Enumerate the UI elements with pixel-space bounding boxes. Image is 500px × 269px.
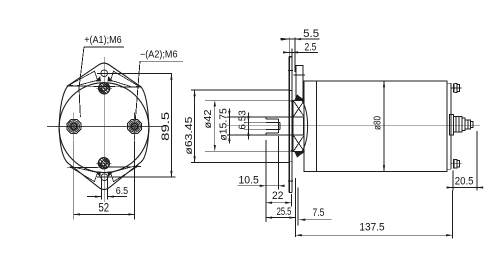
front view bottom through-bolt hatching	[99, 158, 109, 168]
dimension 137.5 right arrow	[446, 234, 452, 236]
front view bottom tab right dark gusset	[108, 172, 114, 177]
mounting flange front face	[288, 57, 290, 193]
shaft end face upper corner	[265, 117, 267, 119]
front view bottom tab slot left edge	[100, 178, 102, 200]
bearing housing outline	[297, 95, 308, 157]
rear end cap rim bottom tick	[447, 168, 451, 170]
svg-text:ø63.45: ø63.45	[184, 116, 195, 155]
leader line to stud A1	[79, 47, 84, 117]
dimension 89.5 bottom arrow	[170, 171, 172, 177]
dimension 10.5 left arrow	[260, 185, 266, 187]
front view bottom tab slot right edge	[107, 178, 109, 200]
svg-text:7.5: 7.5	[313, 207, 325, 219]
shaft tip extension line	[265, 140, 267, 222]
dimension 52 left arrow	[74, 213, 80, 215]
shaft root face	[292, 117, 294, 135]
dimension ø15.75 bottom arrow	[228, 135, 230, 141]
dimension 52 left extension line	[73, 141, 75, 220]
dimension ø42 bottom arrow	[214, 145, 216, 151]
front view top tab right dark gusset	[108, 76, 114, 81]
hub upper dark gusset	[290, 101, 293, 105]
dimension 6.5 right arrow	[108, 195, 114, 197]
front view bottom tab web line	[67, 167, 141, 168]
svg-text:10.5: 10.5	[239, 174, 259, 186]
mounting flange tab joint upper	[288, 70, 293, 72]
front view top tab left web rib	[70, 71, 98, 86]
shaft bottom chamfer line	[266, 132, 279, 134]
motor body left edge	[303, 81, 305, 172]
dimension 2.5 extension line	[291, 49, 293, 57]
front view horizontal centerline	[47, 125, 162, 127]
front view top through-bolt hatching	[99, 83, 109, 93]
mounting flange boss joint lower	[288, 161, 292, 163]
dimension ø63.45 top reference line	[191, 89, 289, 91]
dimension 6.53 line	[247, 113, 249, 140]
dimension 25.5 line	[266, 217, 296, 219]
dimension 5.5 extension line b	[294, 38, 296, 73]
shaft slot top edge	[266, 121, 280, 123]
body rear extension line	[451, 191, 453, 239]
shaft OD reference extension bottom	[227, 134, 266, 136]
front end bell seam	[315, 81, 317, 172]
dimension ø63.45 bottom reference line	[191, 162, 289, 164]
dimension 52 line	[74, 213, 135, 215]
front view top tab left dark gusset	[95, 76, 101, 81]
svg-text:52: 52	[99, 200, 110, 214]
rear end cap rim	[450, 83, 452, 169]
shaft slot end edge	[279, 122, 281, 129]
front view bottom tab left dark gusset	[95, 172, 101, 177]
dimension 5.5 line	[281, 38, 320, 40]
dimension 2.5 line	[286, 51, 319, 53]
hub rear extension line	[297, 187, 299, 225]
dimension 22 right arrow	[285, 202, 291, 204]
shaft OD reference extension top	[227, 116, 266, 118]
svg-text:ø80: ø80	[372, 116, 383, 130]
dimension 22 line	[266, 202, 292, 204]
rear terminal stud lower	[453, 159, 455, 168]
rear end cap rim top tick	[447, 82, 451, 84]
front view bottom tab right web rib	[111, 166, 139, 182]
dimension 52 right arrow	[128, 213, 134, 215]
dimension 20.5 line	[447, 187, 484, 189]
dimension 6.5 line right segment	[108, 196, 127, 198]
mounting flange rear face	[291, 57, 293, 193]
front view bottom mounting tab outline	[59, 128, 149, 189]
dimension ø80 top arrow	[383, 81, 385, 87]
front view bottom tab hole horizontal centerline	[97, 176, 176, 178]
svg-text:ø42: ø42	[203, 109, 214, 128]
axial terminal tip	[470, 122, 473, 128]
brush holder stem	[296, 66, 303, 101]
svg-text:22: 22	[272, 190, 283, 202]
dimension 5.5 right arrow	[295, 38, 301, 40]
svg-text:6.53: 6.53	[238, 110, 249, 130]
dimension 137.5 line	[296, 234, 453, 236]
label +(A1);M6 underline	[84, 46, 124, 48]
mounting flange boss joint upper	[288, 89, 292, 91]
leader line to stud A2	[135, 61, 140, 119]
dimension 2.5 left arrow	[283, 51, 289, 53]
dimension 20.5 left arrow	[447, 186, 453, 188]
motor body outline	[304, 81, 447, 172]
front view bottom tab hole	[101, 174, 108, 181]
axial terminal thread facet	[467, 120, 469, 129]
slot depth extension line	[277, 136, 279, 190]
dimension ø42 top arrow	[214, 100, 216, 106]
dimension ø63.45 line	[194, 90, 196, 162]
dimension 22 left arrow	[266, 202, 272, 204]
rear terminal stud upper	[453, 83, 455, 92]
svg-text:20.5: 20.5	[455, 175, 474, 187]
shaft bottom outline	[266, 134, 293, 136]
dimension ø15.75 top arrow	[228, 111, 230, 117]
dimension 5.5 left arrow	[283, 38, 289, 40]
label −(A2);M6 underline	[140, 60, 183, 62]
dimension 10.5 right arrow	[278, 185, 284, 187]
front bearing lower cross	[293, 135, 304, 151]
axial terminal threaded section	[465, 120, 470, 129]
mounting flange tab joint lower	[288, 180, 293, 182]
dimension ø80 bottom arrow	[383, 165, 385, 171]
front bearing upper section box	[293, 101, 304, 117]
hub upper dark wedge	[294, 95, 305, 100]
dimension 25.5 left arrow	[266, 216, 272, 218]
shaft slot bottom step	[277, 119, 279, 133]
svg-text:6.5: 6.5	[116, 186, 129, 197]
svg-text:5.5: 5.5	[303, 28, 319, 40]
dimension ø15.75 line	[228, 109, 230, 144]
front view top tab web line	[67, 86, 142, 87]
front view top through-bolt crosshair	[97, 87, 113, 89]
dimension 2.5 right arrow	[292, 51, 298, 53]
axial terminal nut facet lines	[455, 116, 457, 132]
mounting flange bottom edge	[289, 191, 292, 193]
svg-text:+(A1);M6: +(A1);M6	[84, 35, 122, 46]
dimension 6.53 top arrow	[247, 116, 249, 122]
front view top tab right web rib	[111, 71, 139, 87]
dimension 10.5 line	[238, 185, 285, 187]
dimension 5.5 datum dot	[280, 38, 283, 41]
dimension 5.5 extension line a	[288, 38, 290, 57]
dimension 20.5 right arrow	[477, 186, 483, 188]
front view bottom tab left web rib	[70, 167, 98, 182]
hub lower dark wedge	[294, 152, 305, 157]
slot reference extension bottom	[244, 129, 266, 131]
shaft top outline	[266, 116, 293, 118]
svg-text:2.5: 2.5	[305, 41, 317, 53]
front view top through-bolt circle	[99, 83, 110, 94]
axial terminal nut	[453, 116, 462, 132]
dimension ø63.45 bottom arrow	[193, 156, 195, 162]
svg-text:ø15.75: ø15.75	[218, 108, 229, 141]
dimension 6.5 left arrow	[95, 195, 101, 197]
dimension 137.5 left arrow	[296, 234, 302, 236]
dimension 89.5 line	[170, 74, 172, 178]
front bearing lower section box	[293, 135, 304, 151]
axial terminal washer 2	[462, 118, 465, 131]
side view axis centerline	[226, 125, 480, 127]
front view top mounting tab outline	[59, 63, 149, 127]
dimension 6.5 line left segment	[87, 196, 101, 198]
shaft slot bottom edge	[266, 129, 280, 131]
front view top tab hole horizontal centerline	[97, 73, 172, 75]
front view top tab hole	[101, 70, 108, 77]
dimension 52 right extension line	[134, 141, 136, 220]
front bearing upper cross	[293, 101, 304, 117]
front view bottom through-bolt crosshair	[96, 162, 112, 164]
svg-text:89.5: 89.5	[160, 112, 172, 141]
mounting flange top edge	[289, 56, 292, 58]
svg-text:137.5: 137.5	[359, 222, 384, 234]
front view bottom through-bolt circle	[98, 158, 109, 169]
dimension ø42 line	[214, 100, 216, 151]
dimension 20.5 right extension line	[476, 131, 478, 191]
dimension ø63.45 top arrow	[193, 90, 195, 96]
terminal stud A2 (front view, right)	[128, 119, 142, 133]
dimension ø80 line	[383, 81, 385, 172]
slot reference extension top	[244, 121, 266, 123]
dimension 89.5 top arrow	[170, 74, 172, 80]
dimension 7.5 arrow	[299, 219, 305, 221]
dimension 7.5 line	[299, 219, 331, 221]
shaft end face lower corner	[265, 133, 267, 135]
front view vertical centerline	[103, 57, 105, 202]
terminal stud A1 (front view, left)	[67, 119, 81, 133]
dimension ø42 top reference line	[205, 100, 293, 102]
dimension ø42 bottom reference line	[205, 150, 293, 152]
dimension 20.5 left extension line	[452, 171, 454, 191]
brush holder collar	[294, 74, 306, 76]
dimension 25.5 right arrow	[289, 216, 295, 218]
flange rear extension line	[290, 194, 292, 207]
shaft top chamfer line	[266, 118, 279, 120]
hub face extension line	[295, 178, 297, 237]
svg-text:−(A2);M6: −(A2);M6	[140, 49, 178, 60]
bearing seat edge	[302, 117, 304, 135]
dimension 6.53 bottom arrow	[247, 130, 249, 136]
front view flange main circle	[59, 83, 149, 173]
hub lower dark gusset	[290, 147, 293, 151]
axial terminal base washer	[449, 115, 453, 135]
svg-text:25.5: 25.5	[277, 206, 292, 218]
